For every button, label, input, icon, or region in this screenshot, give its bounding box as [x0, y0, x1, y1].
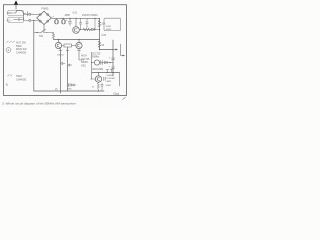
connector tick C	[78, 50, 81, 52]
wire L1	[14, 11, 24, 20]
svg-text:FW05: FW05	[42, 7, 49, 11]
svg-text:0.01: 0.01	[73, 11, 78, 14]
svg-text:50MHz: 50MHz	[92, 56, 100, 58]
terminal E1	[29, 13, 31, 15]
input box row 1	[8, 10, 24, 15]
capacitor C13 stub	[110, 69, 113, 72]
wire R7 leads	[62, 45, 76, 47]
wire Q4 top	[78, 40, 80, 43]
wire plug to bridge top	[23, 12, 40, 17]
svg-text:CHANGE: CHANGE	[16, 78, 27, 81]
svg-text:CHANGE: CHANGE	[16, 52, 27, 55]
wire Q1 output row	[79, 29, 99, 32]
svg-text:OSC: OSC	[81, 65, 86, 67]
legend dashes 2	[8, 75, 13, 77]
svg-text:3): 3)	[6, 83, 9, 87]
wire out branch	[119, 73, 121, 87]
svg-text:Out: Out	[114, 92, 119, 96]
diode D5	[92, 28, 95, 31]
svg-text:(2SC1096): (2SC1096)	[92, 69, 103, 71]
wire antenna stem	[15, 5, 17, 9]
node rail to R3	[99, 29, 100, 30]
diode D9	[72, 84, 76, 86]
wire bus left vertical	[33, 20, 35, 91]
diode marks inside bridge	[39, 13, 41, 15]
capacitor C5 drop	[86, 18, 88, 27]
connector tick A	[59, 49, 62, 51]
node rail junctions	[62, 18, 63, 19]
wire drop to D5	[94, 18, 96, 29]
resistor R4	[98, 21, 100, 27]
switch SW1 row	[34, 32, 54, 34]
tick mark below frame	[123, 97, 126, 99]
node final junctions	[98, 72, 99, 73]
wire Q3 top	[58, 40, 60, 43]
wire Q6 left lead	[91, 78, 96, 80]
node middle junctions	[58, 39, 59, 40]
svg-text:50MC: 50MC	[106, 85, 112, 87]
wire L2	[14, 18, 24, 21]
wire branch right	[121, 44, 124, 56]
svg-text:2SC735: 2SC735	[92, 53, 101, 55]
wire bridge bottom to switch row	[43, 25, 45, 33]
diode D6	[61, 62, 65, 64]
wire right vertical v2	[112, 40, 114, 76]
node detector corner	[99, 49, 100, 50]
svg-text:2SB56: 2SB56	[57, 55, 64, 57]
diode D7	[68, 64, 72, 66]
node audio junction	[109, 62, 110, 63]
transistor Q6	[95, 76, 101, 82]
node detector junction	[112, 49, 113, 50]
terminal E2	[29, 19, 31, 21]
legend dashes 1	[7, 41, 15, 43]
wire Q1 collector to rail	[75, 18, 77, 26]
resistor R6	[53, 33, 55, 40]
svg-text:3. Whole circuit diagram of th: 3. Whole circuit diagram of the 50MHz AM…	[2, 102, 76, 106]
resistor R5	[98, 41, 100, 47]
svg-text:50MHz: 50MHz	[107, 75, 114, 77]
transistor Q1	[73, 27, 80, 34]
svg-text:100V: 100V	[7, 11, 13, 15]
wire DC rail top	[51, 17, 99, 19]
capacitor C12 stub	[106, 69, 109, 72]
resistor R3	[83, 28, 91, 30]
wire plug to bridge bottom	[23, 19, 40, 22]
crystal box X1	[104, 18, 121, 30]
resistor R9	[97, 83, 99, 91]
svg-text:5K: 5K	[102, 45, 105, 47]
wire Q6 emitter	[97, 81, 99, 84]
wire middle row	[54, 39, 100, 41]
svg-text:POWER: POWER	[107, 78, 116, 80]
wire Q6 base	[98, 73, 100, 76]
input box row 2	[8, 17, 24, 22]
svg-text:HIGH: HIGH	[81, 56, 87, 58]
switch SW1 blade	[41, 29, 46, 33]
svg-text:0.05: 0.05	[102, 35, 107, 37]
wire final row	[92, 72, 120, 74]
svg-text:450P: 450P	[65, 14, 71, 17]
node SW1 junction	[36, 32, 37, 33]
capacitor C10	[101, 61, 102, 65]
legend circled 2	[6, 48, 11, 53]
capacitor C8	[112, 58, 115, 60]
bridge rectifier D1	[37, 11, 52, 24]
wire Q3 emitter vertical	[59, 48, 62, 93]
antenna arrow	[14, 0, 18, 4]
capacitor C14	[101, 83, 103, 91]
svg-text:XTAL: XTAL	[106, 25, 112, 28]
transistor Q4	[76, 42, 82, 48]
node bottom junction	[98, 90, 99, 91]
svg-text:2SC735: 2SC735	[81, 59, 90, 61]
resistor R7	[64, 44, 72, 47]
capacitor C4 drop	[79, 18, 81, 29]
svg-text:43MC: 43MC	[106, 29, 112, 31]
arrow output 1	[113, 49, 116, 51]
capacitor C11	[104, 77, 105, 81]
border frame	[4, 5, 127, 96]
capacitor C3	[69, 18, 72, 25]
wire vertical B	[67, 47, 69, 91]
svg-text:50MHz: 50MHz	[81, 62, 89, 64]
diode D8	[105, 61, 108, 64]
capacitor C9	[112, 67, 115, 69]
transistor Q3	[55, 42, 61, 48]
wire audio feed vertical	[91, 52, 93, 79]
svg-text:AMP: AMP	[107, 80, 112, 83]
svg-text:AC~: AC~	[7, 18, 13, 22]
wire audio row	[92, 62, 114, 64]
wire bottom row	[34, 90, 104, 92]
resistor R8	[68, 83, 72, 86]
wire right column vertical	[99, 18, 101, 49]
connector tick B	[66, 49, 69, 51]
svg-text:2): 2)	[55, 87, 58, 91]
arrow output 2	[123, 55, 125, 57]
transistor Q5	[94, 60, 99, 65]
wire detector row	[100, 49, 114, 51]
svg-text:2SC372 50MC: 2SC372 50MC	[82, 14, 98, 17]
capacitor C2	[61, 20, 65, 24]
capacitor C1	[54, 20, 58, 24]
wire Q4 emitter	[79, 49, 84, 60]
